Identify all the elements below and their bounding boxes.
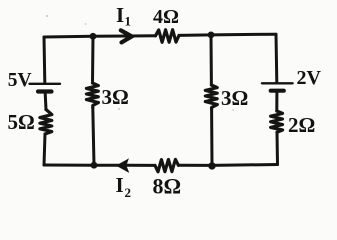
- wire left branch upper: [43, 37, 47, 82]
- node junction bottom-right: [208, 162, 215, 169]
- svg-text:4Ω: 4Ω: [153, 6, 179, 28]
- wire middle-right branch upper: [210, 35, 213, 85]
- svg-text:I: I: [116, 173, 124, 197]
- wire middle-right branch lower: [210, 109, 213, 165]
- wire middle-left branch lower: [93, 108, 94, 165]
- wire bottom-left segment: [44, 164, 155, 167]
- resistor R2 3ohm (left) coil: [86, 83, 98, 108]
- node junction top-left: [90, 33, 97, 40]
- current arrow I2 (solid head, points left): [117, 159, 128, 171]
- wire battery B2 to resistor R5: [275, 93, 278, 112]
- resistor R5 2ohm coil: [271, 111, 283, 132]
- battery B2 2V long plate: [262, 82, 293, 84]
- resistor R1 4ohm zigzag: [156, 30, 180, 43]
- node junction top-right: [208, 32, 215, 39]
- current arrow I1 (chevron, points right): [121, 30, 132, 42]
- wire bottom-right segment: [178, 163, 277, 167]
- svg-text:5Ω: 5Ω: [8, 110, 35, 134]
- node junction bottom-left: [91, 162, 98, 169]
- wire top-right segment: [179, 34, 276, 35]
- svg-text:2Ω: 2Ω: [288, 113, 315, 137]
- battery B1 5V short plate: [38, 89, 52, 93]
- wire top-left segment: [44, 36, 156, 37]
- wire resistor R4 to battery B1: [44, 93, 48, 109]
- battery B2 2V short plate: [271, 89, 284, 93]
- resistor R3 3ohm (right) coil: [205, 85, 217, 109]
- svg-text:2V: 2V: [297, 67, 322, 89]
- battery B1 5V long plate: [30, 83, 61, 85]
- svg-text:2: 2: [125, 185, 132, 200]
- wire right branch lower: [276, 132, 280, 164]
- wire left branch lower: [44, 134, 45, 165]
- svg-text:1: 1: [125, 14, 132, 29]
- resistor R4 5ohm coil: [40, 110, 52, 135]
- svg-text:3Ω: 3Ω: [102, 85, 129, 109]
- svg-text:I: I: [116, 3, 124, 27]
- svg-text:5V: 5V: [8, 70, 32, 91]
- wire right branch upper: [275, 34, 279, 82]
- svg-text:8Ω: 8Ω: [153, 173, 182, 198]
- wire middle-left branch upper: [91, 36, 95, 83]
- resistor R6 8ohm zigzag: [155, 159, 178, 171]
- svg-text:3Ω: 3Ω: [221, 86, 248, 110]
